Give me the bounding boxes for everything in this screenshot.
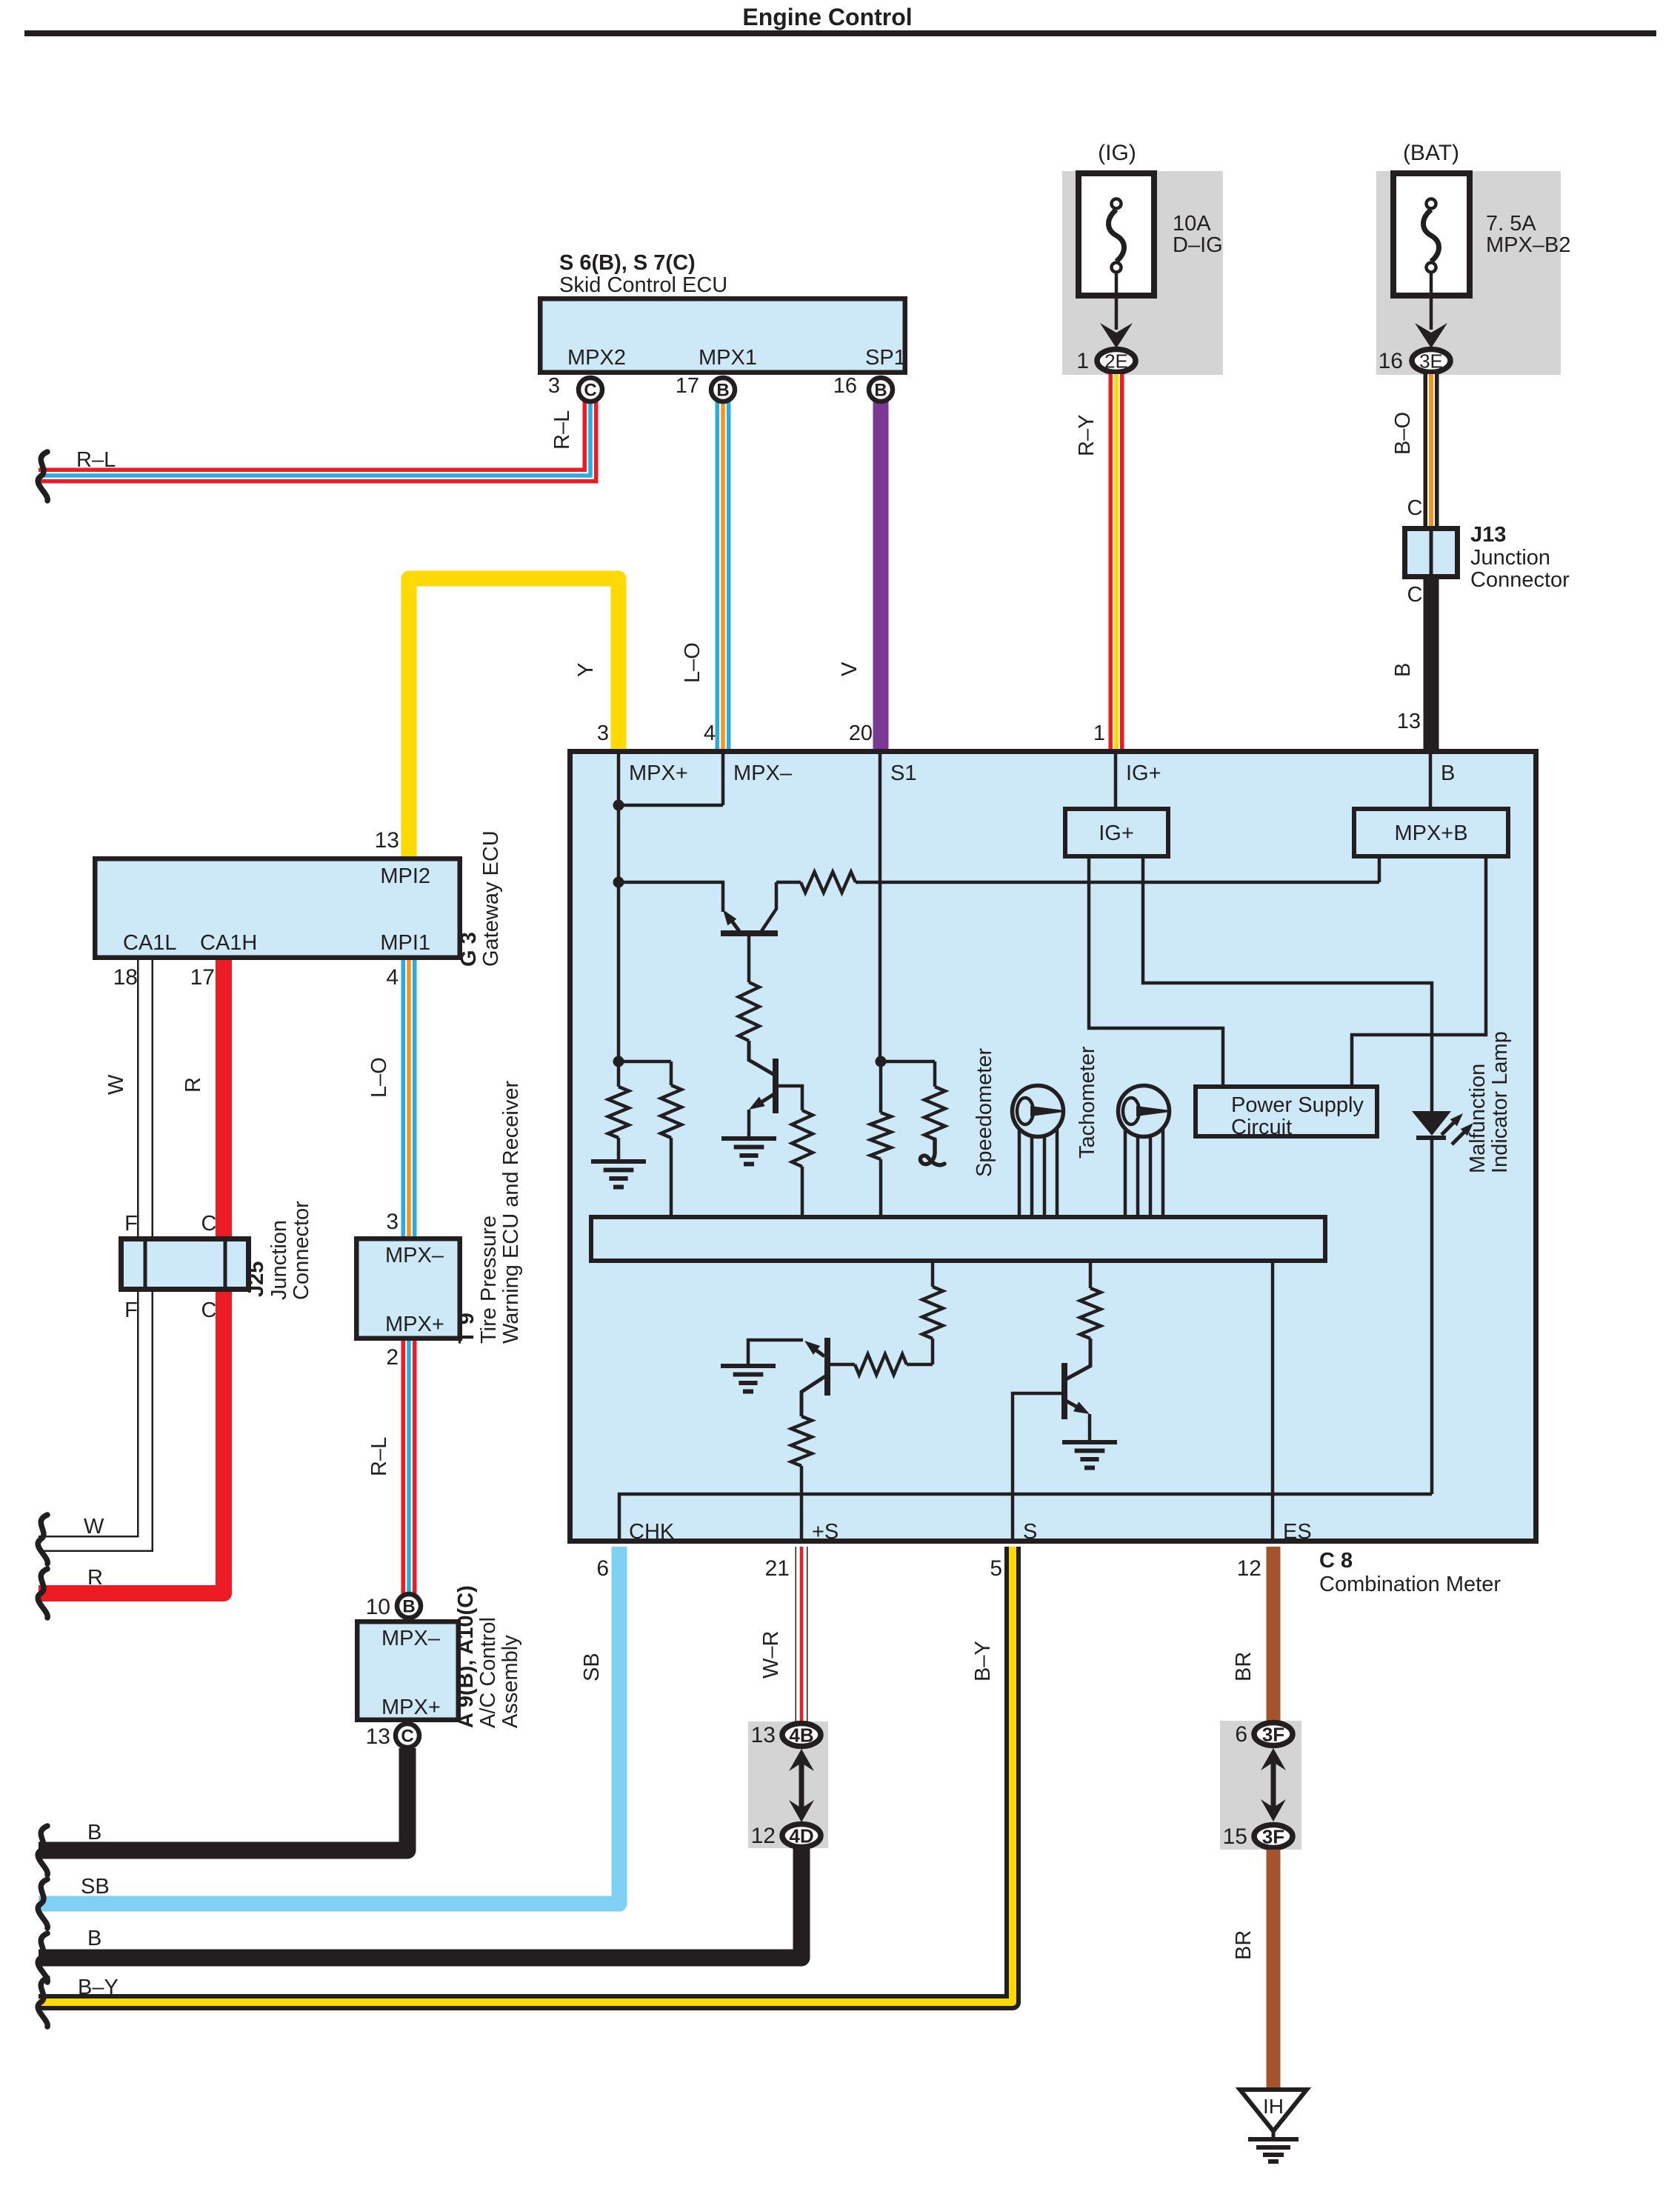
transistor Q2 <box>773 1059 779 1113</box>
svg-text:13: 13 <box>375 828 399 853</box>
svg-text:Skid Control ECU: Skid Control ECU <box>559 273 727 297</box>
connector 3E pin 16 <box>1412 350 1450 373</box>
svg-text:Connector: Connector <box>1470 568 1570 592</box>
title rule <box>24 30 1656 36</box>
svg-text:C 8: C 8 <box>1319 1549 1353 1573</box>
svg-text:C: C <box>1407 496 1423 520</box>
svg-text:Warning ECU and Receiver: Warning ECU and Receiver <box>499 1081 523 1344</box>
resistor R4 (left, to ground) <box>617 1061 621 1087</box>
svg-text:Junction: Junction <box>1470 546 1550 570</box>
resistor R5 (to bus) <box>670 1061 673 1085</box>
Q3 collector <box>801 1376 825 1416</box>
svg-text:W: W <box>104 1074 128 1095</box>
svg-text:W–R: W–R <box>759 1631 783 1679</box>
svg-text:+S: +S <box>812 1520 839 1544</box>
wire node4 right <box>881 1060 935 1064</box>
svg-text:MPX–: MPX– <box>381 1627 441 1650</box>
internal box MPX+B <box>1354 809 1508 856</box>
wire R1 to MPX+B lead <box>856 881 1379 884</box>
svg-text:13: 13 <box>751 1723 776 1747</box>
svg-text:12: 12 <box>751 1824 776 1848</box>
resistor R9 (horizontal, Q3 base) <box>907 1363 933 1367</box>
svg-text:B: B <box>1391 663 1415 677</box>
svg-text:F: F <box>124 1212 138 1236</box>
Q2 base lead right <box>776 1086 802 1110</box>
wire B-O <box>1424 374 1439 527</box>
wire B from 4D to left break <box>39 1849 801 1958</box>
transistor Q3 <box>824 1338 830 1396</box>
connector block 4B/4D gray background <box>748 1721 828 1848</box>
svg-text:3F: 3F <box>1262 1826 1284 1848</box>
svg-text:R–Y: R–Y <box>1075 415 1099 456</box>
svg-text:F: F <box>124 1299 138 1322</box>
arrows between 4B and 4D <box>799 1757 804 1813</box>
svg-text:Power Supply: Power Supply <box>1231 1093 1364 1117</box>
wire R-L <box>39 400 590 476</box>
svg-text:C: C <box>584 381 596 401</box>
svg-text:13: 13 <box>1397 710 1421 733</box>
svg-text:15: 15 <box>1223 1824 1247 1849</box>
pin MPX- lead <box>721 751 725 805</box>
svg-text:Indicator Lamp: Indicator Lamp <box>1488 1031 1512 1173</box>
wire break squiggle R-L <box>38 452 47 501</box>
wire B from A/C <box>39 1748 407 1850</box>
svg-text:2E: 2E <box>1104 350 1128 373</box>
svg-text:17: 17 <box>190 965 215 990</box>
ground IH triangle <box>1240 2090 1307 2131</box>
wire R <box>39 960 224 1593</box>
internal box IG+ <box>1065 809 1168 856</box>
svg-text:5: 5 <box>990 1556 1002 1581</box>
node dot 1 <box>613 800 624 811</box>
IG+ left lead to Power Supply <box>1089 859 1223 1084</box>
svg-text:R: R <box>87 1566 103 1590</box>
svg-text:Assembly: Assembly <box>499 1635 522 1728</box>
svg-text:16: 16 <box>1379 349 1403 373</box>
svg-text:MPI2: MPI2 <box>380 864 430 888</box>
internal bus bar <box>591 1217 1325 1261</box>
wire Q1 collector to resistor <box>776 881 801 884</box>
gauge Speedometer <box>1013 1086 1064 1137</box>
wire L-O <box>716 400 731 750</box>
svg-text:MPX–: MPX– <box>733 761 793 785</box>
svg-text:MPX+: MPX+ <box>385 1313 444 1336</box>
svg-text:6: 6 <box>596 1556 609 1581</box>
svg-text:(IG): (IG) <box>1098 141 1136 165</box>
svg-text:3F: 3F <box>1262 1724 1284 1746</box>
svg-text:MPX1: MPX1 <box>699 346 757 370</box>
svg-text:1: 1 <box>1076 349 1089 373</box>
transistor Q1 <box>721 930 778 936</box>
svg-text:V: V <box>838 661 861 676</box>
wire R-Y <box>1109 374 1124 750</box>
svg-text:L–O: L–O <box>681 642 704 683</box>
svg-text:13: 13 <box>366 1724 390 1749</box>
svg-text:C: C <box>201 1299 217 1322</box>
svg-text:L–O: L–O <box>367 1057 391 1098</box>
junction connector J13 <box>1405 529 1458 577</box>
svg-text:C: C <box>401 1727 413 1747</box>
svg-text:Tire Pressure: Tire Pressure <box>477 1216 501 1344</box>
svg-text:Junction: Junction <box>267 1220 291 1300</box>
connector circle B (pin 17) <box>711 378 735 401</box>
svg-text:21: 21 <box>765 1556 790 1581</box>
wire CHK to LED line <box>619 1494 1432 1544</box>
wire R2 to Q2 <box>749 1041 776 1076</box>
tachometer feed lines <box>1124 1126 1127 1215</box>
Skid Control ECU box <box>540 299 905 373</box>
svg-text:CA1H: CA1H <box>200 931 257 955</box>
pin ES lead <box>1271 1263 1275 1544</box>
wire break squiggle B-Y <box>38 1978 47 2027</box>
speedometer feed lines <box>1018 1126 1021 1215</box>
svg-text:J13: J13 <box>1470 523 1506 547</box>
resistor R6 (S1 to bus) <box>879 1061 883 1113</box>
svg-text:Combination Meter: Combination Meter <box>1319 1573 1501 1596</box>
svg-text:IG+: IG+ <box>1099 821 1134 845</box>
svg-text:G 3: G 3 <box>457 932 481 967</box>
svg-text:BR: BR <box>1232 1652 1256 1681</box>
svg-text:MPX–: MPX– <box>385 1244 444 1267</box>
fuse 7.5A MPX-B2 <box>1393 173 1470 296</box>
svg-text:S1: S1 <box>890 761 916 785</box>
svg-text:7. 5A: 7. 5A <box>1486 212 1536 236</box>
svg-text:4: 4 <box>704 721 716 745</box>
wire BR lower <box>1267 1850 1281 2091</box>
svg-text:16: 16 <box>833 374 857 398</box>
svg-text:3: 3 <box>548 374 560 398</box>
transistor Q4 <box>1061 1363 1067 1419</box>
svg-text:B: B <box>87 1821 101 1844</box>
svg-text:J25: J25 <box>244 1261 268 1297</box>
svg-text:C: C <box>201 1212 217 1236</box>
wire break squiggle B lower <box>38 1933 47 1982</box>
svg-text:B–O: B–O <box>1391 412 1415 455</box>
wire break squiggle R <box>38 1569 47 1618</box>
svg-text:B: B <box>87 1927 101 1950</box>
wire W <box>39 960 145 1544</box>
svg-text:18: 18 <box>113 965 138 990</box>
wire W-R <box>796 1547 808 1723</box>
Gateway ECU box G3 <box>95 859 460 958</box>
svg-text:MPX+: MPX+ <box>629 761 688 785</box>
fuse block (BAT) gray background <box>1376 171 1561 375</box>
svg-text:3: 3 <box>386 1210 399 1234</box>
wire Y <box>409 579 619 858</box>
connector 3F pin 15 <box>1254 1825 1293 1848</box>
connector circle C (A/C pin 13) <box>396 1724 419 1747</box>
svg-text:MPX–B2: MPX–B2 <box>1486 233 1570 257</box>
resistor R2 (Q1 base) <box>739 982 759 1041</box>
T9 Tire Pressure Warning ECU box <box>356 1239 460 1339</box>
wire break squiggle B <box>38 1826 47 1875</box>
svg-text:SB: SB <box>81 1875 110 1899</box>
svg-text:6: 6 <box>1235 1722 1247 1747</box>
svg-text:D–IG: D–IG <box>1173 233 1223 257</box>
svg-text:SP1: SP1 <box>865 346 906 370</box>
svg-text:R: R <box>181 1077 205 1093</box>
pin MPX+ lead <box>617 751 621 805</box>
svg-text:2: 2 <box>386 1345 399 1370</box>
wire node3 right <box>619 1060 671 1064</box>
svg-text:Speedometer: Speedometer <box>973 1048 996 1177</box>
svg-text:B: B <box>716 381 729 401</box>
gauge Tachometer <box>1119 1086 1170 1137</box>
wire MPX- to node <box>619 804 723 807</box>
svg-text:10: 10 <box>366 1595 390 1619</box>
resistor R10 (Q3 collector to +S) <box>791 1416 812 1466</box>
fuse block (IG) gray background <box>1062 171 1223 375</box>
junction connector J25 <box>121 1239 249 1290</box>
pin S1 lead <box>879 751 882 1061</box>
ground symbol below IH <box>1248 2137 1299 2141</box>
svg-text:S: S <box>1023 1520 1037 1544</box>
svg-text:B–Y: B–Y <box>78 1976 119 1999</box>
svg-text:17: 17 <box>676 374 699 398</box>
connector 2E pin 1 <box>1097 350 1136 373</box>
svg-text:R–L: R–L <box>367 1437 391 1476</box>
svg-text:4D: 4D <box>789 1825 813 1847</box>
Q1 base lead down <box>747 933 751 982</box>
svg-text:IG+: IG+ <box>1126 761 1161 785</box>
resistor R11 (bus to Q4 collector) <box>1089 1263 1093 1288</box>
svg-text:R–L: R–L <box>550 410 574 450</box>
wire B-Y <box>39 1547 1013 2002</box>
svg-text:T 9: T 9 <box>455 1313 479 1344</box>
resistor R7 (with curl) <box>933 1061 937 1087</box>
connector 4B pin 13 <box>782 1724 821 1747</box>
node dot 2 <box>613 877 624 888</box>
thermistor curl <box>920 1139 944 1165</box>
svg-text:12: 12 <box>1237 1556 1261 1581</box>
svg-text:Circuit: Circuit <box>1231 1116 1292 1139</box>
svg-text:20: 20 <box>849 721 873 745</box>
svg-text:B–Y: B–Y <box>971 1641 995 1681</box>
pin IG+ lead <box>1114 751 1118 807</box>
svg-text:R–L: R–L <box>76 448 116 472</box>
LED malfunction indicator lamp <box>1412 1111 1451 1136</box>
svg-text:MPX2: MPX2 <box>567 346 626 370</box>
wire fuse to connector 2E <box>1115 273 1119 330</box>
wire break squiggle W <box>38 1515 47 1564</box>
Combination Meter box C8 <box>570 752 1536 1541</box>
wire L-O lower <box>401 960 417 1238</box>
svg-text:A/C Control: A/C Control <box>476 1617 500 1728</box>
ground G3 <box>721 1364 776 1368</box>
resistor R3 (Q2 base to bus) <box>792 1110 813 1167</box>
wire R-L lower <box>401 1341 417 1596</box>
resistor R8 (bus to Q3 base) <box>931 1263 935 1287</box>
node dot 3 <box>613 1056 624 1067</box>
internal box Power Supply Circuit <box>1196 1087 1377 1136</box>
wire BR upper <box>1267 1547 1281 1723</box>
wire Q2 emitter to ground <box>747 1110 751 1136</box>
pin S lead <box>1013 1393 1062 1544</box>
svg-text:3E: 3E <box>1419 350 1443 373</box>
svg-text:A 9(B), A10(C): A 9(B), A10(C) <box>454 1585 478 1728</box>
svg-text:Malfunction: Malfunction <box>1466 1064 1490 1173</box>
svg-text:B: B <box>402 1597 415 1617</box>
svg-text:Connector: Connector <box>290 1201 313 1300</box>
IG+ right lead to MIL <box>1143 859 1432 1111</box>
svg-text:ES: ES <box>1283 1520 1312 1544</box>
svg-text:4: 4 <box>386 965 399 990</box>
svg-text:1: 1 <box>1093 721 1105 745</box>
wire break squiggle SB <box>38 1879 47 1928</box>
wire V <box>873 400 889 750</box>
connector block 3F gray background <box>1220 1721 1301 1850</box>
svg-text:MPX+: MPX+ <box>381 1696 441 1719</box>
svg-text:C: C <box>1407 583 1423 607</box>
svg-text:Tachometer: Tachometer <box>1076 1046 1099 1159</box>
fuse 10A D-IG <box>1079 173 1154 296</box>
pin B lead <box>1429 751 1433 807</box>
svg-text:10A: 10A <box>1173 212 1211 236</box>
svg-text:W: W <box>84 1515 104 1539</box>
arrows between 3F ovals <box>1271 1756 1276 1813</box>
svg-text:SB: SB <box>580 1653 604 1681</box>
connector 4D pin 12 <box>782 1824 821 1847</box>
A/C Control Assembly box <box>357 1621 459 1720</box>
svg-text:(BAT): (BAT) <box>1403 141 1459 165</box>
ground G1 <box>591 1159 646 1164</box>
Q4 emitter to ground <box>1066 1401 1084 1411</box>
svg-text:Engine Control: Engine Control <box>742 4 912 30</box>
svg-text:S 6(B), S 7(C): S 6(B), S 7(C) <box>559 251 696 275</box>
svg-text:BR: BR <box>1232 1930 1256 1960</box>
svg-text:MPI1: MPI1 <box>380 931 430 955</box>
connector circle B (pin 16) <box>869 378 893 401</box>
wire SB <box>39 1547 619 1904</box>
node dot 4 (S1) <box>876 1056 887 1067</box>
svg-text:CHK: CHK <box>629 1520 675 1544</box>
svg-text:MPX+B: MPX+B <box>1394 821 1467 845</box>
wire node1 down to node2 <box>617 805 621 1061</box>
svg-text:Gateway ECU: Gateway ECU <box>479 830 503 967</box>
resistor R1 (horizontal) <box>801 872 856 893</box>
svg-text:4B: 4B <box>789 1724 813 1747</box>
wire fuse to connector 3E <box>1430 273 1433 330</box>
svg-text:B: B <box>874 381 887 401</box>
connector circle B (A/C pin 10) <box>397 1594 421 1618</box>
ground G4 <box>1062 1440 1117 1444</box>
connector 3F pin 6 <box>1254 1723 1293 1746</box>
svg-text:B: B <box>1441 761 1455 785</box>
ground G2 <box>721 1136 776 1141</box>
svg-text:IH: IH <box>1263 2095 1284 2118</box>
MPX+B right lead to Power Supply <box>1352 859 1486 1084</box>
svg-text:Y: Y <box>574 663 598 677</box>
wire B (J13 to meter pin 13) <box>1424 578 1439 750</box>
svg-text:3: 3 <box>597 721 609 745</box>
wire node2 to Q1 emitter <box>619 882 723 912</box>
connector circle C (pin 3) <box>579 378 602 401</box>
MPX+B left lead to R1 line <box>1378 859 1381 882</box>
svg-text:CA1L: CA1L <box>123 931 177 955</box>
wire Q3 emitter to ground <box>748 1340 803 1364</box>
